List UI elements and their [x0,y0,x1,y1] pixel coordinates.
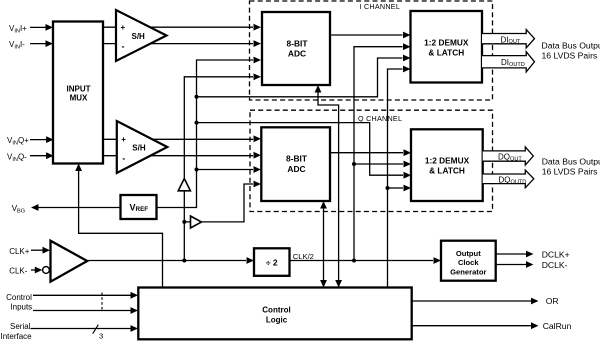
S/H amplifier I [116,10,167,61]
junction node clock to Q buffer [182,220,186,224]
CLK/2 wire divider to output clock generator [290,257,442,264]
svg-text:1:2 DEMUX: 1:2 DEMUX [425,155,470,165]
svg-text:VINQ-: VINQ- [7,152,27,163]
wire mux to S/H Q to ADC Q (-) [103,152,261,159]
I channel dashed box [250,1,493,100]
CLK wire buffer to divider [87,257,254,264]
svg-text:DCLK+: DCLK+ [542,249,570,259]
reference wire to Q ADC input 3 [197,166,262,173]
wire mux to S/H I to ADC I (-) [103,40,261,47]
clock input buffer triangle [51,241,88,282]
svg-text:& LATCH: & LATCH [428,48,464,58]
DI out hollow arrow 1 [482,30,535,48]
svg-text:Interface: Interface [1,332,33,341]
svg-text:DCLK-: DCLK- [542,260,568,270]
junction node dclk to Q demux [386,186,390,190]
wire mux to S/H Q to ADC Q (+) [103,135,261,142]
1:2 demux latch Q box [411,129,483,201]
clock buffer triangle (vertical, points up) [178,179,190,191]
Q sample clock buffer triangle (points right) [191,216,202,228]
VREF box [121,195,157,219]
svg-text:1:2 DEMUX: 1:2 DEMUX [424,38,469,48]
junction node clk/2 to Q demux [352,162,356,166]
wire I ADC to I DEMUX [330,32,411,39]
reference tap wire to I DEMUX input 3 [197,55,411,97]
clock vertical wire to I ADC input 4 [184,73,261,260]
DCLK feed wire from control logic to DEMUX input 4 [388,66,412,288]
control inputs wires [33,292,138,314]
svg-text:+: + [121,23,126,32]
wire VIN I+ input [30,24,53,31]
svg-text:INPUT: INPUT [67,84,91,93]
svg-text:S/H: S/H [132,32,146,41]
svg-text:Inputs: Inputs [10,303,32,312]
svg-text:+: + [121,135,126,144]
svg-text:Q CHANNEL: Q CHANNEL [358,114,402,123]
OR output wire [412,298,539,305]
svg-text:CLK-: CLK- [9,266,28,275]
junction node ref-Q demux tap [195,121,199,125]
svg-text:ADC: ADC [288,49,306,59]
svg-text:MUX: MUX [70,94,88,103]
wire VIN Q+ input [30,136,54,143]
svg-text:Data Bus Output: Data Bus Output [542,157,600,167]
svg-text:Output: Output [456,249,481,258]
reference tap wire to Q DEMUX input 3 [197,123,412,179]
CLK+ input wire [31,247,50,254]
DCLK- output wire [496,261,534,268]
wire VIN I- input [30,40,53,47]
svg-text:-: - [122,42,125,52]
junction node clock main line [182,259,186,263]
svg-text:I CHANNEL: I CHANNEL [360,2,401,11]
mux select wire from control logic [75,164,162,288]
svg-text:3: 3 [99,332,103,341]
serial interface wire with bus slash 3 [31,325,139,334]
svg-text:& LATCH: & LATCH [429,165,465,175]
CalRun output wire [412,322,539,329]
I ADC calibration wire to control logic [315,85,342,288]
1:2 demux latch I box [411,11,483,83]
svg-text:8-BIT: 8-BIT [286,154,308,164]
svg-text:CLK+: CLK+ [9,247,30,256]
Q channel dashed box [250,110,493,211]
Q sample clock wire from buffer to Q ADC input 4 [184,181,261,222]
svg-text:Control: Control [262,305,290,314]
svg-text:Logic: Logic [266,316,288,325]
svg-text:16 LVDS Pairs: 16 LVDS Pairs [542,51,598,61]
reference wire from VREF up to I ADC input 3 [157,57,262,208]
svg-text:-: - [122,154,125,164]
junction node ref-I demux tap [195,95,199,99]
svg-text:ADC: ADC [287,164,305,174]
DCLK+ output wire [496,251,534,258]
svg-text:16 LVDS Pairs: 16 LVDS Pairs [542,167,598,177]
svg-text:Serial: Serial [10,322,31,331]
svg-text:CLK/2: CLK/2 [293,252,314,261]
control logic box [138,288,411,340]
junction node ref-Q adc tap [195,168,199,172]
svg-text:CalRun: CalRun [543,321,572,331]
svg-text:÷ 2: ÷ 2 [266,257,278,267]
divide by 2 box [254,248,290,275]
wire mux to S/H I to ADC I (+) [103,24,261,31]
CLK- input wire with inversion bubble [31,267,49,274]
DQ out hollow arrow 2 (delayed) [483,170,534,188]
8-bit ADC Q box [261,127,330,201]
svg-text:OR: OR [546,296,559,306]
svg-text:S/H: S/H [132,144,146,153]
junction node clk/2 [352,259,356,263]
svg-text:Generator: Generator [450,267,486,276]
8-bit ADC I box [262,12,330,85]
Q ADC calibration wire to control logic [320,201,327,288]
DI out hollow arrow 2 (delayed) [482,52,535,72]
VBG output wire [31,204,121,211]
svg-text:Clock: Clock [458,258,479,267]
svg-text:8-BIT: 8-BIT [287,38,309,48]
CLK/2 wire to I DEMUX input 2 and Q DEMUX input 2 [354,43,411,260]
input mux box [53,22,103,164]
svg-text:Data Bus Output: Data Bus Output [542,41,600,51]
wire Q ADC to Q DEMUX [330,149,411,156]
wire VIN Q- input [30,152,54,159]
svg-text:VINQ+: VINQ+ [7,136,29,147]
svg-text:Control: Control [6,293,32,302]
S/H amplifier Q [117,121,168,173]
DQ out hollow arrow 1 [483,147,534,165]
output clock generator box [441,241,496,281]
